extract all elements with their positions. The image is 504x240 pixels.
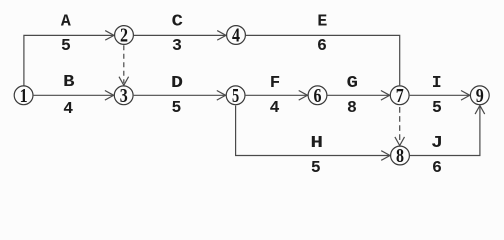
- svg-text:3: 3: [120, 85, 128, 107]
- label 5 (A duration): [61, 36, 71, 55]
- wire activity F (node 5 to node 6): [246, 91, 308, 101]
- node 2: [115, 25, 134, 47]
- wire activity A (node 1 up, right to node 2): [24, 31, 114, 86]
- wire activity D (node 3 to node 5): [134, 91, 226, 101]
- label H: [310, 133, 323, 152]
- label 4 (F duration): [270, 98, 280, 117]
- node 1: [14, 85, 33, 107]
- svg-text:G: G: [347, 73, 358, 92]
- svg-text:I: I: [432, 73, 442, 92]
- svg-text:8: 8: [396, 145, 404, 167]
- svg-text:9: 9: [476, 85, 484, 107]
- node 6: [308, 85, 327, 107]
- svg-text:7: 7: [396, 85, 404, 107]
- label 4 (B duration): [63, 99, 73, 118]
- wire activity G (node 6 to node 7): [328, 91, 390, 101]
- label I: [432, 73, 442, 92]
- wire activity E (node 4 right, down to node 7): [246, 35, 400, 85]
- svg-text:4: 4: [63, 99, 73, 118]
- node 9: [470, 85, 489, 107]
- label 5 (D duration): [172, 98, 182, 117]
- label B: [63, 72, 75, 91]
- dummy arrow node 2 to node 3 (dashed): [119, 45, 129, 85]
- wire activity C (node 2 to node 4): [134, 31, 226, 41]
- wire activity I (node 7 to node 9): [410, 91, 470, 101]
- svg-text:D: D: [171, 73, 183, 92]
- label A: [61, 11, 71, 30]
- svg-text:4: 4: [270, 98, 280, 117]
- node 5: [226, 85, 245, 107]
- label 8 (G duration): [347, 98, 357, 117]
- node 4: [227, 25, 246, 47]
- label F: [270, 73, 281, 92]
- svg-text:5: 5: [232, 85, 239, 107]
- label 5 (H duration): [311, 158, 321, 177]
- wire activity J (node 8 right, up to node 9): [410, 106, 485, 156]
- wire activity B (node 1 to node 3): [34, 91, 114, 101]
- svg-text:6: 6: [317, 36, 327, 55]
- svg-text:5: 5: [432, 98, 442, 117]
- svg-text:3: 3: [172, 36, 182, 55]
- svg-text:4: 4: [232, 25, 240, 47]
- svg-text:C: C: [172, 11, 183, 30]
- svg-text:1: 1: [20, 85, 28, 107]
- node 8: [391, 145, 410, 167]
- label G: [347, 73, 358, 92]
- svg-text:6: 6: [432, 158, 442, 177]
- svg-text:5: 5: [61, 36, 71, 55]
- label 3 (C duration): [172, 36, 182, 55]
- dummy arrow node 7 to node 8 (dashed): [395, 107, 405, 146]
- svg-text:5: 5: [172, 98, 182, 117]
- label J: [431, 133, 443, 152]
- svg-text:5: 5: [311, 158, 321, 177]
- svg-text:2: 2: [120, 25, 128, 47]
- label C: [172, 11, 183, 30]
- svg-text:H: H: [310, 133, 323, 152]
- svg-text:8: 8: [347, 98, 357, 117]
- svg-text:6: 6: [314, 85, 322, 107]
- svg-text:J: J: [431, 133, 443, 152]
- label E: [317, 11, 327, 30]
- node 7: [390, 85, 409, 107]
- node 3: [114, 85, 133, 107]
- wire activity H (node 5 down, right to node 8): [236, 106, 390, 161]
- label 5 (I duration): [432, 98, 442, 117]
- label 6 (E duration): [317, 36, 327, 55]
- svg-text:A: A: [61, 11, 71, 30]
- svg-text:E: E: [317, 11, 327, 30]
- svg-text:F: F: [270, 73, 281, 92]
- svg-text:B: B: [63, 72, 75, 91]
- label D: [171, 73, 183, 92]
- label 6 (J duration): [432, 158, 442, 177]
